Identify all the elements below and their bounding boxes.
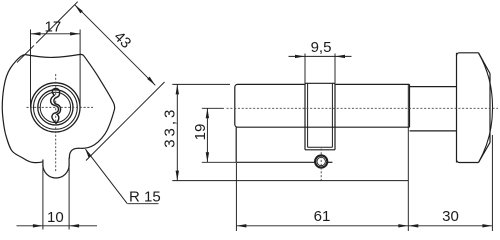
cylinder lower extension rounded bottom bbox=[43, 165, 69, 178]
arrow 43 top bbox=[75, 5, 83, 14]
dim 10 dimension line bbox=[17, 225, 98, 227]
cam bottom inner bbox=[308, 146, 333, 148]
dim 9,5 extension right bbox=[334, 54, 336, 84]
cam outer left bbox=[304, 83, 306, 150]
barrel top edge (right of cam) bbox=[335, 83, 410, 85]
dim 19 dimension line bbox=[206, 108, 208, 162]
dim 17 extension line left bbox=[30, 30, 32, 108]
svg-text:17: 17 bbox=[45, 18, 62, 35]
dim 17 dimension line bbox=[31, 33, 81, 35]
knob top chamfer bbox=[479, 53, 491, 74]
fin left edge bbox=[235, 127, 237, 162]
dim 10 extension+side left bbox=[42, 165, 44, 230]
svg-text:19: 19 bbox=[192, 124, 209, 141]
fin bottom stub right of screw bbox=[328, 161, 333, 163]
cylinder lower extension left side bbox=[42, 160, 44, 166]
dim 43 extension line bottom bbox=[86, 82, 165, 161]
svg-text:R 15: R 15 bbox=[129, 188, 161, 205]
dim 30 extension right bbox=[491, 135, 493, 231]
dim 9,5 dimension line bbox=[289, 55, 352, 57]
arrow 19 bottom bbox=[206, 152, 209, 162]
dim 19 extension top bbox=[202, 107, 224, 109]
screw circle inner bbox=[317, 157, 325, 165]
dim 19 extension bottom bbox=[202, 161, 236, 163]
knob bottom chamfer bbox=[479, 143, 491, 163]
leader R15 diagonal bbox=[86, 149, 128, 203]
dim 43 extension line top bbox=[17, 2, 78, 63]
plug chamfer ring bbox=[40, 92, 70, 122]
centerline vertical (left view) bbox=[55, 74, 57, 172]
plug circle bbox=[38, 90, 73, 125]
arrow 17 left bbox=[31, 32, 41, 35]
cam bottom outer bbox=[305, 149, 335, 151]
arrow 10 left (outside) bbox=[33, 224, 43, 227]
barrel top edge (left of cam) bbox=[238, 83, 306, 85]
arrow 61 right bbox=[398, 224, 408, 227]
escutcheon rosette outline bbox=[2, 54, 114, 162]
centerline cam vertical bbox=[320, 149, 322, 181]
dim 61/30 extension middle bbox=[407, 85, 409, 231]
centerline horizontal (right view) bbox=[227, 107, 499, 109]
dim 33,3 extension top bbox=[172, 83, 230, 85]
dim 33,3 dimension line bbox=[176, 84, 178, 180]
arrow 33,3 bottom bbox=[176, 171, 179, 181]
dim 33,3 extension bottom bbox=[172, 180, 408, 182]
arrow 43 bottom bbox=[147, 77, 155, 86]
housing circle bbox=[31, 83, 80, 132]
arrow 33,3 top bbox=[176, 84, 179, 94]
arrow 61 left bbox=[236, 224, 246, 227]
keyway profile bbox=[51, 89, 61, 124]
svg-text:30: 30 bbox=[442, 208, 459, 225]
arrow 9,5 left (outside) bbox=[295, 55, 305, 58]
cam inner left bbox=[307, 83, 309, 147]
knob left face bbox=[456, 53, 458, 163]
housing inner ring bbox=[34, 86, 78, 130]
dim 17 extension line right bbox=[79, 30, 81, 108]
svg-text:33,3: 33,3 bbox=[162, 107, 179, 148]
dim 43 dimension line bbox=[75, 5, 156, 86]
thumbturn neck bottom bbox=[410, 130, 457, 132]
cam inner right bbox=[331, 83, 333, 147]
body right end bbox=[409, 84, 411, 127]
fin bottom edge bbox=[236, 161, 315, 163]
svg-text:43: 43 bbox=[110, 28, 134, 52]
screw circle bbox=[315, 155, 327, 167]
arrow R15 bbox=[85, 149, 91, 158]
arrow 17 right bbox=[70, 32, 80, 35]
cam outer right bbox=[334, 83, 336, 150]
dim 9,5 extension left bbox=[304, 54, 306, 84]
arrow 9,5 right (outside) bbox=[335, 55, 345, 58]
arrow 19 top bbox=[206, 108, 209, 118]
arrow 30 left bbox=[408, 224, 418, 227]
knob right face bbox=[489, 74, 491, 143]
svg-text:10: 10 bbox=[47, 209, 64, 226]
cam top bbox=[305, 82, 335, 84]
barrel left cap bbox=[235, 84, 238, 127]
arrow 10 right (outside) bbox=[69, 224, 79, 227]
svg-text:61: 61 bbox=[314, 208, 331, 225]
cylinder lower extension right side bbox=[68, 158, 70, 166]
thumbturn neck top bbox=[410, 86, 457, 88]
svg-text:9,5: 9,5 bbox=[311, 39, 332, 56]
knob top edge bbox=[457, 53, 479, 56]
leader R15 underline bbox=[128, 203, 159, 205]
knob bottom edge bbox=[457, 160, 479, 163]
barrel bottom edge bbox=[238, 126, 410, 128]
knob spherical arc bbox=[479, 53, 493, 163]
centerline horizontal (left view) bbox=[27, 106, 94, 108]
dim 61 extension left bbox=[235, 163, 237, 231]
dim 61/30 dimension line bbox=[236, 225, 492, 227]
arrow 30 right bbox=[482, 224, 492, 227]
dim 10 extension+side right bbox=[68, 165, 70, 230]
